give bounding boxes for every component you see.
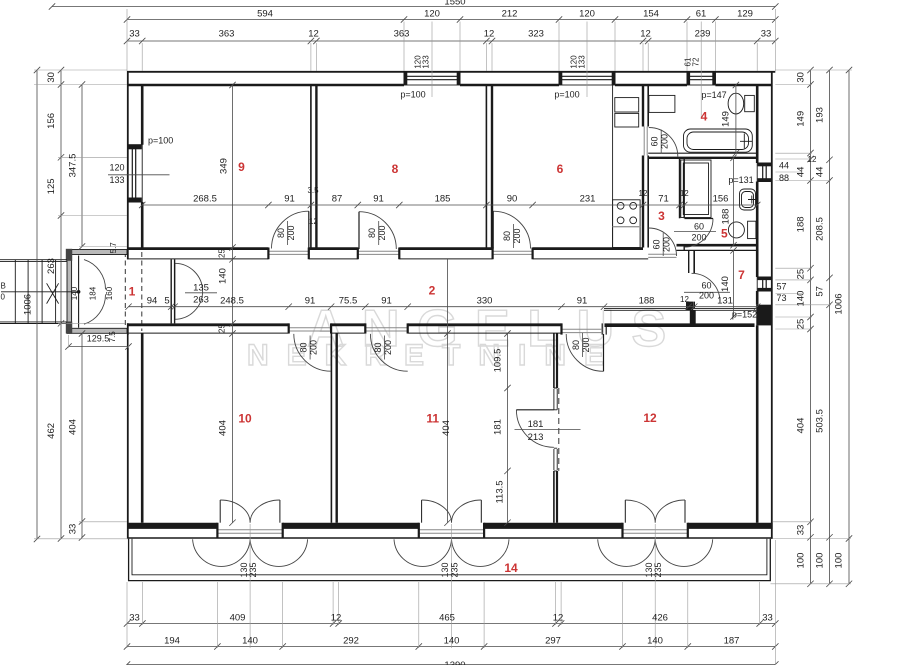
svg-text:129.5: 129.5 (87, 334, 110, 344)
bathtub tap cross (740, 134, 753, 149)
svg-text:91: 91 (373, 194, 384, 205)
kitchen counter edge (612, 85, 614, 248)
svg-text:188: 188 (796, 216, 807, 232)
wall rooms 11|12 with opening 181 (553, 334, 555, 523)
door jamb caps corridor bottom (289, 323, 562, 334)
entry porch corner blocks (66, 249, 72, 261)
svg-text:594: 594 (257, 9, 273, 20)
right extension lines (771, 70, 853, 584)
svg-text:200: 200 (662, 237, 672, 252)
svg-text:12: 12 (680, 189, 689, 198)
svg-text:12: 12 (308, 29, 319, 40)
svg-text:140: 140 (444, 636, 460, 647)
svg-text:503.5: 503.5 (815, 409, 826, 433)
svg-text:200: 200 (660, 134, 670, 149)
svg-text:120: 120 (579, 9, 595, 20)
door room3-corridor arc (649, 228, 677, 256)
svg-text:44: 44 (779, 161, 789, 171)
svg-text:33: 33 (129, 29, 140, 40)
door11 sill (365, 328, 407, 331)
svg-text:235: 235 (449, 562, 459, 577)
svg-text:404: 404 (218, 420, 229, 436)
door 135/263 dim line (185, 292, 217, 294)
svg-text:239: 239 (695, 29, 711, 40)
porch door sill room11 (419, 530, 484, 533)
svg-text:1550: 1550 (444, 0, 465, 8)
room9 vertical dim x232.5 (232, 85, 234, 523)
room interior dim line y205 (142, 204, 757, 206)
toilet room5 (728, 222, 744, 238)
vestibule double door semicircle+leaf (175, 263, 203, 319)
room12 vertical chain x507.5 (507, 334, 509, 523)
dim 129.5 porch (69, 346, 129, 348)
stair treads (15, 260, 55, 324)
svg-text:409: 409 (230, 613, 246, 624)
svg-text:6: 6 (557, 162, 564, 176)
porch 14 outline inner (132, 539, 767, 575)
svg-text:91: 91 (305, 296, 316, 307)
svg-text:140: 140 (796, 291, 807, 307)
door 181/213 dim line (515, 429, 581, 431)
door6 sill (493, 251, 533, 254)
svg-text:465: 465 (439, 613, 455, 624)
svg-text:268.5: 268.5 (193, 194, 217, 205)
svg-text:426: 426 (652, 613, 668, 624)
door9 sill (268, 251, 308, 254)
svg-text:p=131: p=131 (728, 175, 753, 185)
room12 north wall east section (605, 323, 755, 327)
svg-text:33: 33 (68, 524, 79, 535)
svg-text:25: 25 (218, 249, 227, 258)
svg-text:60: 60 (650, 136, 660, 146)
svg-text:292: 292 (343, 636, 359, 647)
stove divider (613, 226, 641, 228)
svg-text:90: 90 (507, 194, 518, 205)
corridor bottom wall upper thick edge (127, 323, 562, 326)
top extension lines (127, 9, 775, 119)
svg-text:p=100: p=100 (554, 90, 579, 100)
svg-text:12: 12 (680, 295, 689, 304)
svg-text:p=147: p=147 (701, 90, 726, 100)
entry door arcs (84, 260, 106, 325)
bottom dim row B2 (127, 646, 775, 648)
svg-text:12: 12 (808, 155, 817, 164)
svg-text:140: 140 (70, 286, 79, 300)
svg-text:297: 297 (545, 636, 561, 647)
exterior right wall inner line (756, 85, 759, 523)
svg-text:231: 231 (580, 194, 596, 205)
door3-5 60 dim line (674, 231, 716, 233)
svg-text:8: 8 (392, 162, 399, 176)
svg-text:80: 80 (571, 340, 581, 350)
svg-text:193: 193 (815, 107, 826, 123)
corridor top wall (thick upper edge) (127, 247, 643, 250)
svg-text:200: 200 (512, 228, 522, 243)
svg-text:91: 91 (577, 296, 588, 307)
entry porch left wall (67, 250, 72, 334)
svg-text:404: 404 (441, 420, 452, 436)
door room3-room5 arc+leaf (685, 219, 714, 248)
entrance opening dashed (overhead) (125, 252, 142, 331)
room7 door stub block (686, 302, 693, 310)
door10 sill (289, 328, 331, 331)
stove box (613, 200, 641, 248)
entry double door leaves (78, 256, 80, 328)
svg-text:12: 12 (640, 29, 651, 40)
bottom dim row B3 total (127, 664, 775, 665)
svg-text:100: 100 (796, 553, 807, 569)
svg-text:185: 185 (435, 194, 451, 205)
svg-text:100: 100 (815, 553, 826, 569)
bathroom vertical dim x735.9 (735, 85, 737, 153)
wall rooms 10|11 (330, 334, 332, 523)
stove burners (617, 202, 624, 209)
svg-text:12: 12 (639, 189, 648, 198)
top row2 ticks (124, 38, 779, 44)
door7 60 dim line (684, 291, 730, 293)
bottom extension lines (127, 524, 775, 665)
wall rooms3/5 south (y244.8) (677, 244, 758, 247)
door room9 arc+leaf (272, 211, 309, 248)
fraction bars for rotated door labels (288, 130, 664, 360)
svg-text:263: 263 (46, 258, 57, 274)
left extension lines (34, 70, 128, 539)
svg-text:120: 120 (109, 163, 124, 173)
svg-text:347.5: 347.5 (68, 154, 79, 178)
entry direction line with dot (1, 291, 79, 293)
svg-text:80: 80 (367, 228, 377, 238)
door8 sill (358, 251, 400, 254)
svg-text:200: 200 (377, 225, 387, 240)
svg-text:12: 12 (643, 411, 657, 425)
svg-text:44: 44 (815, 167, 826, 178)
window W1 top (120/133) (404, 72, 460, 85)
svg-text:71: 71 (658, 194, 669, 205)
svg-text:80: 80 (299, 342, 309, 352)
svg-text:30: 30 (796, 72, 807, 83)
exterior top wall outer line (127, 71, 775, 73)
porch door sill room12 (623, 530, 688, 533)
right chain R3 (848, 70, 850, 584)
svg-text:5: 5 (164, 296, 169, 307)
svg-text:p=100: p=100 (148, 136, 173, 146)
svg-text:140: 140 (647, 636, 663, 647)
svg-text:133: 133 (578, 55, 587, 69)
porch door sill room10 (217, 530, 282, 533)
svg-text:44: 44 (796, 167, 807, 178)
svg-text:12: 12 (553, 613, 564, 624)
right wall jog solid pier (756, 305, 772, 326)
svg-text:140: 140 (218, 268, 229, 284)
svg-text:33: 33 (761, 29, 772, 40)
door room8 arc+leaf (359, 212, 396, 249)
svg-text:12: 12 (309, 217, 318, 226)
svg-text:88: 88 (779, 173, 789, 183)
right chain R2 (829, 70, 831, 584)
svg-text:3.5: 3.5 (307, 186, 319, 195)
window W2 top kitchen (120/133) (559, 72, 615, 85)
door bathroom4 arc (649, 128, 678, 157)
right chain R1 (810, 70, 812, 584)
window W6 right wall room7 (57/73) (757, 277, 772, 291)
stair break X mark (47, 283, 59, 303)
corridor dim line y306.7 (129, 306, 758, 308)
svg-text:12: 12 (484, 29, 495, 40)
svg-text:200: 200 (286, 225, 296, 240)
porch 14 outline outer (129, 539, 771, 581)
door room10 arc (294, 334, 331, 371)
svg-text:91: 91 (284, 194, 295, 205)
svg-text:p=152: p=152 (732, 310, 757, 320)
svg-text:149: 149 (796, 111, 807, 127)
svg-text:25: 25 (796, 269, 807, 280)
top row1 ticks (124, 16, 779, 22)
svg-text:330: 330 (477, 296, 493, 307)
door room6 arc+leaf (493, 211, 530, 248)
svg-text:248.5: 248.5 (220, 296, 244, 307)
svg-text:25: 25 (218, 324, 227, 333)
svg-text:113.5: 113.5 (495, 480, 506, 503)
door room11 arc (370, 334, 407, 371)
svg-text:73: 73 (776, 293, 786, 303)
svg-text:7.5: 7.5 (108, 331, 117, 343)
svg-text:3: 3 (658, 209, 665, 223)
svg-text:1390: 1390 (444, 660, 465, 665)
svg-text:60: 60 (694, 222, 704, 232)
top dim row 1550 (52, 6, 775, 8)
svg-text:187: 187 (724, 636, 740, 647)
svg-text:188: 188 (721, 209, 732, 225)
svg-text:7: 7 (738, 268, 745, 282)
svg-text:200: 200 (309, 340, 319, 355)
svg-text:57: 57 (815, 286, 826, 297)
bottom dim row B1 (127, 623, 775, 625)
bathtub (684, 129, 753, 152)
svg-text:156: 156 (46, 113, 57, 129)
svg-text:135: 135 (193, 283, 209, 294)
interior wall rooms 8|6 (485, 85, 487, 248)
room7 west wall with door (688, 250, 690, 308)
svg-text:94: 94 (147, 296, 158, 307)
door3 sill (to corridor) (648, 254, 676, 257)
washing machine bath4 (649, 95, 675, 112)
svg-text:133: 133 (422, 55, 431, 69)
porch door room10 inner leaves (193, 500, 308, 566)
svg-text:363: 363 (394, 29, 410, 40)
svg-text:363: 363 (219, 29, 235, 40)
svg-text:33: 33 (796, 525, 807, 536)
window W3 bathroom (61/72) (687, 72, 715, 85)
exterior bottom wall outer line (127, 537, 773, 539)
svg-text:188: 188 (639, 296, 655, 307)
svg-text:0: 0 (1, 293, 6, 302)
interior wall rooms 9|8 (310, 85, 312, 248)
svg-text:323: 323 (528, 29, 544, 40)
svg-text:156: 156 (713, 194, 729, 205)
svg-text:p=100: p=100 (400, 90, 425, 100)
svg-text:33: 33 (129, 613, 140, 624)
bathroom south wall (648, 152, 757, 154)
porch door room11 leaves (394, 500, 509, 566)
svg-text:80: 80 (373, 342, 383, 352)
svg-text:212: 212 (502, 9, 518, 20)
exterior left wall inner line (141, 85, 144, 523)
door4 sill (644, 127, 647, 156)
svg-text:2: 2 (429, 284, 436, 298)
room7 vertical dim x733.5 (733, 250, 735, 316)
svg-text:5.7: 5.7 (109, 242, 118, 254)
svg-text:154: 154 (643, 9, 659, 20)
left chain L1 (1006) (36, 70, 38, 539)
svg-text:404: 404 (796, 418, 807, 434)
svg-text:80: 80 (502, 231, 512, 241)
svg-text:125: 125 (46, 178, 57, 194)
svg-text:200: 200 (699, 290, 714, 300)
svg-text:120: 120 (424, 9, 440, 20)
lobby thin edge lines (604, 308, 756, 310)
svg-text:200: 200 (383, 340, 393, 355)
svg-text:213: 213 (528, 432, 544, 443)
top dim row1 line (127, 19, 775, 21)
porch door room12 leaves (598, 500, 713, 566)
kitchen sink unit (615, 98, 639, 112)
svg-text:160: 160 (105, 286, 114, 300)
svg-text:91: 91 (381, 296, 392, 307)
svg-text:61: 61 (696, 9, 707, 20)
room5 vertical dim x733.5 (733, 158, 735, 245)
svg-text:30: 30 (46, 72, 57, 83)
svg-text:12: 12 (331, 613, 342, 624)
left window 120/133 dim line (108, 174, 170, 176)
svg-text:200: 200 (691, 233, 706, 243)
exterior stairs outline (0, 260, 67, 324)
svg-text:60: 60 (701, 281, 711, 291)
svg-text:140: 140 (720, 276, 731, 292)
vestibule1 wall stub (5cm) (170, 259, 172, 323)
svg-text:80: 80 (276, 228, 286, 238)
svg-text:149: 149 (721, 111, 732, 127)
svg-text:349: 349 (219, 158, 230, 174)
exterior right wall outer line (771, 71, 773, 539)
corridor bottom wall lower edge (127, 332, 562, 334)
svg-text:4: 4 (701, 110, 708, 124)
svg-text:1: 1 (129, 285, 136, 299)
svg-text:75.5: 75.5 (339, 296, 358, 307)
room7 west wall lower continuation (690, 310, 696, 325)
svg-text:25: 25 (796, 319, 807, 330)
left chain L3 (81, 85, 83, 538)
exterior top wall inner line (127, 84, 772, 87)
washbasin room5 (740, 189, 756, 210)
right wall cap at lobby (756, 305, 772, 307)
svg-text:208.5: 208.5 (815, 217, 826, 241)
svg-text:194: 194 (164, 636, 180, 647)
svg-text:72: 72 (692, 57, 701, 66)
svg-text:87: 87 (332, 194, 343, 205)
toilet bath4 (728, 93, 744, 114)
room12 door west jamb (602, 323, 606, 334)
exterior left wall outer line (127, 71, 129, 539)
svg-text:1006: 1006 (834, 293, 845, 314)
svg-text:57: 57 (776, 282, 786, 292)
11|12 opening dashed projection (558, 388, 560, 471)
svg-text:14: 14 (504, 561, 518, 575)
door12 sill (562, 329, 603, 332)
closet room5 (681, 160, 711, 218)
door jamb caps corridor top (268, 248, 532, 260)
svg-text:181: 181 (528, 419, 544, 430)
door rooms11|12 arc+leaf (516, 410, 554, 448)
svg-text:129: 129 (737, 9, 753, 20)
porch door jambs (217, 523, 687, 538)
left chain L2 (60, 70, 62, 539)
svg-text:9: 9 (238, 160, 245, 174)
window W5 right wall (44/88) (757, 163, 772, 182)
wall room3|5 vertical with door opening (679, 159, 681, 219)
svg-text:200: 200 (581, 337, 591, 352)
entry porch rails (gray) (67, 250, 127, 255)
11|12 opening jamb frames (554, 388, 557, 471)
svg-text:404: 404 (68, 419, 79, 435)
exterior bottom wall inner thick band (127, 523, 773, 529)
svg-text:133: 133 (109, 175, 124, 185)
svg-text:235: 235 (653, 562, 663, 577)
svg-text:100: 100 (834, 553, 845, 569)
door room12 arc+leaf (566, 334, 603, 371)
svg-text:B: B (1, 282, 6, 291)
svg-text:184: 184 (89, 286, 98, 300)
corridor top wall lower edge (127, 258, 648, 260)
svg-text:1006: 1006 (23, 294, 34, 315)
svg-text:11: 11 (426, 412, 439, 426)
room11 vertical dim x447.5 (447, 259, 449, 522)
svg-text:235: 235 (248, 562, 258, 577)
interior wall room6|bath, with door4 opening (642, 85, 644, 248)
svg-text:60: 60 (652, 239, 662, 249)
svg-text:181: 181 (493, 419, 504, 435)
svg-text:140: 140 (242, 636, 258, 647)
svg-text:33: 33 (762, 613, 773, 624)
window W4 left wall room9 (120/133) (128, 145, 142, 202)
svg-text:131: 131 (717, 296, 733, 307)
svg-text:5: 5 (721, 226, 728, 240)
svg-text:10: 10 (238, 412, 252, 426)
svg-text:263: 263 (193, 295, 209, 306)
svg-text:462: 462 (46, 423, 57, 439)
svg-text:109.5: 109.5 (493, 349, 504, 373)
door corridor-room7 arc (692, 273, 721, 302)
top dim row2 line (127, 40, 775, 42)
